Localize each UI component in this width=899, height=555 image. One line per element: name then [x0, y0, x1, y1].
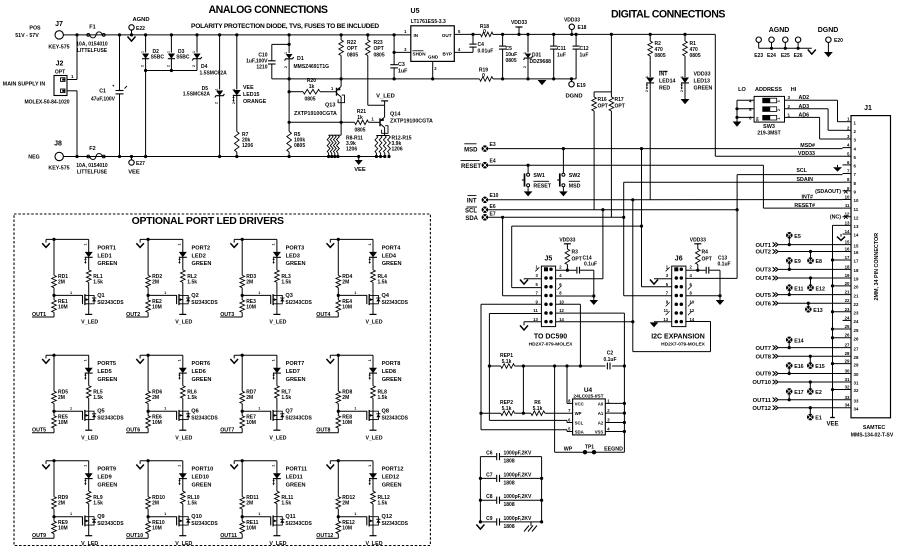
- svg-text:OUT11: OUT11: [753, 398, 772, 404]
- wire cell4 top: [330, 238, 373, 240]
- svg-text:1.5k: 1.5k: [187, 395, 197, 401]
- wire SCL to J1 pin7 and J6 pin4: [736, 208, 739, 211]
- svg-text:ZXTP19100CGTA: ZXTP19100CGTA: [294, 111, 337, 117]
- capacitor C4: [471, 33, 474, 36]
- svg-text:GREEN: GREEN: [382, 483, 402, 489]
- svg-text:J1: J1: [864, 105, 872, 112]
- wire DGND rail: [503, 78, 576, 80]
- svg-text:24: 24: [854, 319, 859, 324]
- resistor RE8: [337, 404, 339, 416]
- svg-text:10M: 10M: [246, 420, 256, 426]
- wire AD3 to J1 pin2: [785, 108, 829, 110]
- capacitor C2: [606, 363, 608, 370]
- svg-text:OPT: OPT: [615, 104, 625, 110]
- svg-text:ADDRESS: ADDRESS: [755, 87, 782, 93]
- svg-text:E5: E5: [794, 234, 801, 240]
- svg-text:51V - 57V: 51V - 57V: [15, 33, 39, 39]
- svg-text:SI2343CDS: SI2343CDS: [382, 416, 409, 422]
- svg-text:14: 14: [559, 317, 564, 322]
- svg-text:AGND: AGND: [132, 17, 149, 23]
- svg-text:SI2343CDS: SI2343CDS: [97, 300, 124, 306]
- svg-text:11: 11: [845, 203, 850, 208]
- svg-text:E12: E12: [816, 286, 825, 292]
- terminal E19 DGND: [570, 77, 573, 80]
- node J1 pin 2 stub: [843, 129, 852, 131]
- svg-text:1: 1: [70, 407, 72, 411]
- terminal E8: [807, 257, 814, 264]
- svg-text:OUT8: OUT8: [316, 428, 330, 434]
- svg-text:BYP: BYP: [443, 52, 452, 57]
- resistor RD12: [337, 461, 339, 497]
- svg-text:1k: 1k: [309, 84, 315, 90]
- svg-text:J7: J7: [55, 21, 63, 28]
- svg-text:V_LED: V_LED: [365, 541, 382, 547]
- svg-text:5.1k: 5.1k: [502, 406, 512, 412]
- svg-text:SW2: SW2: [569, 173, 581, 179]
- svg-text:Q9: Q9: [97, 514, 104, 520]
- svg-text:GREEN: GREEN: [97, 261, 117, 267]
- resistor RD3: [241, 239, 243, 275]
- svg-text:1uF: 1uF: [580, 53, 589, 59]
- svg-text:PORT1: PORT1: [97, 245, 116, 251]
- svg-text:1: 1: [354, 407, 356, 411]
- resistor RE9: [53, 509, 55, 521]
- svg-text:E25: E25: [781, 53, 790, 59]
- svg-text:Q5: Q5: [97, 409, 104, 415]
- svg-text:I2C EXPANSION: I2C EXPANSION: [651, 334, 705, 341]
- wire J5 pin4 riser SCL: [601, 208, 604, 211]
- wire OUT12 stub: [337, 534, 339, 539]
- resistor RD4: [337, 239, 339, 275]
- svg-text:22: 22: [845, 298, 850, 303]
- resistor R1: [683, 33, 686, 36]
- svg-text:TO DC590: TO DC590: [534, 334, 567, 341]
- terminal E22 / AGND: [130, 33, 133, 36]
- LED14 INT red: [646, 78, 654, 83]
- svg-text:14: 14: [854, 233, 859, 238]
- svg-text:E14: E14: [794, 338, 803, 344]
- resistors R12-R15: [376, 135, 389, 137]
- node J1 pin 26 stub: [833, 337, 852, 339]
- resistor R18: [481, 32, 494, 37]
- svg-text:PORT2: PORT2: [192, 245, 211, 251]
- svg-text:VDD33: VDD33: [511, 20, 527, 26]
- svg-text:32: 32: [845, 385, 850, 390]
- svg-text:A1: A1: [598, 411, 604, 416]
- svg-text:2MM, 34 PIN CONNECTOR: 2MM, 34 PIN CONNECTOR: [874, 233, 880, 301]
- wire U4 VCC riser: [567, 402, 573, 404]
- wire U5 BYP: [454, 51, 473, 53]
- fuse F1: [87, 34, 90, 37]
- svg-text:1808: 1808: [504, 480, 515, 486]
- svg-text:1: 1: [645, 76, 649, 78]
- svg-text:MMS-134-02-T-SV: MMS-134-02-T-SV: [851, 433, 894, 439]
- svg-text:1: 1: [272, 359, 276, 361]
- svg-text:KEY-575: KEY-575: [48, 45, 69, 51]
- svg-text:E23: E23: [754, 53, 763, 59]
- svg-text:5.1k: 5.1k: [502, 359, 512, 365]
- svg-text:C14: C14: [583, 255, 592, 261]
- svg-text:E26: E26: [794, 53, 803, 59]
- svg-text:VDD33: VDD33: [564, 18, 580, 24]
- svg-text:1: 1: [164, 407, 166, 411]
- node J1 pin 4 stub: [843, 147, 852, 149]
- svg-text:E6: E6: [490, 204, 496, 210]
- svg-text:33: 33: [845, 395, 850, 400]
- svg-text:18: 18: [845, 264, 850, 269]
- svg-text:25: 25: [845, 324, 850, 329]
- resistor RE1: [53, 288, 55, 300]
- svg-text:0805: 0805: [354, 128, 365, 134]
- svg-text:VEE: VEE: [354, 167, 366, 173]
- svg-text:Q12: Q12: [382, 514, 393, 520]
- node J6 pin1 nc: [666, 267, 670, 271]
- svg-text:D4: D4: [201, 64, 208, 70]
- svg-text:GREEN: GREEN: [382, 261, 402, 267]
- wire J5 pin3 gnd: [524, 278, 541, 280]
- svg-text:OUT4: OUT4: [756, 276, 772, 282]
- svg-text:47uF,100V: 47uF,100V: [91, 97, 116, 103]
- wire J5 pin11 to U4 SCL: [489, 313, 541, 315]
- svg-text:U4: U4: [584, 387, 593, 394]
- svg-text:1: 1: [354, 291, 356, 295]
- node J1 pin 14 stub: [843, 233, 852, 235]
- svg-text:2M: 2M: [58, 501, 65, 507]
- svg-text:22: 22: [854, 302, 859, 307]
- svg-text:12: 12: [559, 308, 564, 313]
- svg-text:1: 1: [70, 291, 72, 295]
- svg-text:E2: E2: [815, 390, 822, 396]
- svg-text:MMSZ4691T1G: MMSZ4691T1G: [294, 64, 330, 70]
- svg-text:1000pF,2KV: 1000pF,2KV: [504, 472, 532, 478]
- wire VCC line: [522, 364, 525, 367]
- svg-text:2: 2: [284, 66, 288, 68]
- resistor RL12: [371, 491, 376, 504]
- LED13 VDD33 green: [681, 78, 689, 83]
- resistor R16: [593, 92, 595, 97]
- svg-text:Q14: Q14: [390, 112, 401, 118]
- terminal E1: [807, 414, 814, 421]
- wire VEE bus along J1: [832, 225, 834, 417]
- transistor Q10: [182, 504, 184, 516]
- svg-text:2: 2: [215, 102, 219, 104]
- svg-text:LED14: LED14: [659, 79, 676, 85]
- svg-text:F2: F2: [89, 146, 95, 152]
- svg-text:LED6: LED6: [192, 369, 206, 375]
- svg-text:E17: E17: [794, 390, 803, 396]
- svg-text:GREEN: GREEN: [192, 483, 212, 489]
- svg-text:219-3MST: 219-3MST: [757, 131, 780, 137]
- net V_LED cell12: [370, 535, 377, 537]
- node J1 pin 5 stub: [843, 155, 852, 157]
- svg-text:OPT: OPT: [598, 104, 608, 110]
- node J6 pins 9-12 nc: [666, 302, 670, 306]
- svg-text:21: 21: [845, 290, 850, 295]
- resistor RD7: [241, 355, 243, 391]
- svg-text:2M: 2M: [152, 501, 159, 507]
- svg-text:2: 2: [141, 65, 145, 67]
- svg-text:C3: C3: [398, 62, 405, 68]
- connector J1: [851, 116, 891, 418]
- resistor RE3: [241, 288, 243, 300]
- svg-text:11: 11: [854, 207, 859, 212]
- svg-text:0805: 0805: [690, 53, 701, 59]
- svg-text:15: 15: [854, 243, 859, 248]
- svg-text:V_LED: V_LED: [365, 435, 382, 441]
- fuse F2: [87, 155, 90, 158]
- diode D3: [170, 33, 173, 36]
- svg-text:2M: 2M: [246, 501, 253, 507]
- svg-text:1: 1: [680, 76, 684, 78]
- svg-text:OUT3: OUT3: [220, 312, 234, 318]
- svg-text:OPT: OPT: [374, 46, 384, 52]
- wire INT riser / I2C loop: [631, 198, 634, 201]
- net V_LED cell9: [85, 535, 92, 537]
- svg-text:1: 1: [164, 291, 166, 295]
- svg-text:C1: C1: [99, 89, 106, 95]
- svg-text:1808: 1808: [504, 524, 515, 530]
- svg-text:1k: 1k: [357, 115, 363, 121]
- svg-text:OUT6: OUT6: [756, 301, 772, 307]
- node J1 pin 25 stub: [833, 328, 852, 330]
- svg-text:SCL: SCL: [796, 168, 807, 174]
- svg-text:OPT: OPT: [702, 257, 712, 263]
- wire AD2 to J1 pin1: [785, 99, 796, 101]
- svg-text:LED1: LED1: [97, 253, 111, 259]
- node J1 pin 13 stub: [833, 224, 852, 226]
- svg-text:C6: C6: [486, 451, 493, 457]
- wire J2 to rails: [67, 79, 77, 81]
- svg-text:20: 20: [854, 285, 859, 290]
- svg-text:LED2: LED2: [192, 253, 206, 259]
- svg-text:VCC: VCC: [575, 401, 584, 406]
- svg-text:V_LED: V_LED: [81, 435, 98, 441]
- svg-text:1000pF,2KV: 1000pF,2KV: [504, 494, 532, 500]
- svg-text:Q3: Q3: [285, 293, 292, 299]
- svg-text:R4: R4: [702, 250, 709, 256]
- resistor RD10: [147, 461, 149, 497]
- node J5 pin6 nc: [558, 286, 562, 290]
- terminal E17: [786, 388, 793, 395]
- svg-text:21: 21: [854, 293, 859, 298]
- terminal E9: [786, 257, 793, 264]
- svg-text:VEE: VEE: [128, 170, 140, 176]
- svg-text:LED5: LED5: [97, 369, 111, 375]
- svg-text:C4: C4: [478, 42, 485, 48]
- svg-text:E4: E4: [490, 159, 496, 165]
- node J1 pin 9 stub: [843, 190, 852, 192]
- svg-text:RESET: RESET: [461, 164, 481, 170]
- svg-text:1: 1: [272, 465, 276, 467]
- svg-text:0.01uF: 0.01uF: [478, 49, 494, 55]
- svg-text:10M: 10M: [342, 304, 352, 310]
- resistor RD1: [53, 239, 55, 275]
- svg-text:26: 26: [845, 333, 850, 338]
- svg-text:2M: 2M: [246, 395, 253, 401]
- svg-text:C9: C9: [486, 516, 493, 522]
- capacitor C8: [480, 499, 496, 501]
- svg-text:E22: E22: [136, 26, 145, 32]
- svg-text:OUT7: OUT7: [220, 428, 234, 434]
- svg-text:34: 34: [854, 406, 859, 411]
- capacitors C6-C9: [479, 457, 481, 522]
- svg-text:11: 11: [533, 308, 538, 313]
- net VEE tick: [358, 157, 360, 161]
- svg-text:RED: RED: [659, 86, 670, 92]
- svg-text:SI2343CDS: SI2343CDS: [285, 521, 312, 527]
- svg-text:10M: 10M: [342, 526, 352, 532]
- svg-text:1206: 1206: [392, 147, 403, 153]
- svg-text:10M: 10M: [58, 420, 68, 426]
- svg-text:27: 27: [845, 343, 850, 348]
- wire +V top rail: [64, 34, 411, 36]
- svg-text:E3: E3: [490, 142, 496, 148]
- transistor Q4: [372, 282, 374, 294]
- svg-text:GREEN: GREEN: [286, 483, 306, 489]
- terminal E27 / VEE: [130, 155, 133, 158]
- ground DGND triangle: [538, 80, 547, 85]
- capacitor C14: [566, 269, 569, 272]
- svg-text:1.5k: 1.5k: [281, 501, 291, 507]
- resistor R7: [235, 132, 240, 153]
- svg-text:OUT10: OUT10: [752, 380, 771, 386]
- resistor RD6: [147, 355, 149, 391]
- resistor RL4: [371, 270, 376, 283]
- wire J5 pin8: [556, 295, 594, 297]
- terminal E14: [786, 337, 793, 344]
- svg-text:2: 2: [777, 109, 781, 111]
- svg-text:VDD33: VDD33: [559, 237, 575, 243]
- svg-text:PORT11: PORT11: [286, 467, 307, 473]
- svg-text:2M: 2M: [342, 395, 349, 401]
- svg-text:VEE: VEE: [826, 422, 838, 428]
- svg-text:C8: C8: [486, 494, 493, 500]
- wire SDAIN riser / J6 pin7: [622, 216, 625, 219]
- svg-text:S5BC: S5BC: [176, 55, 190, 61]
- svg-text:C12: C12: [580, 46, 589, 52]
- capacitor C3: [393, 33, 396, 36]
- svg-text:OUT9: OUT9: [756, 372, 772, 378]
- svg-text:GREEN: GREEN: [286, 377, 306, 383]
- svg-text:25: 25: [854, 328, 859, 333]
- svg-text:MSD: MSD: [464, 147, 478, 153]
- resistor RE7: [241, 404, 243, 416]
- svg-text:E19: E19: [577, 83, 586, 89]
- svg-text:PORT7: PORT7: [286, 361, 305, 367]
- svg-text:0805: 0805: [655, 53, 666, 59]
- svg-text:Q13: Q13: [325, 103, 335, 109]
- svg-text:2M: 2M: [152, 279, 159, 285]
- svg-text:ON: ON: [756, 117, 760, 123]
- wire J5 pin12 riser EEGND: [556, 312, 625, 314]
- wire cell5 top: [46, 354, 89, 356]
- svg-text:GREEN: GREEN: [286, 261, 306, 267]
- svg-text:EEGND: EEGND: [604, 447, 623, 453]
- terminal E15: [807, 362, 814, 369]
- capacitor C13: [696, 269, 699, 272]
- svg-text:POLARITY PROTECTION DIODE, TVS: POLARITY PROTECTION DIODE, TVS, FUSES TO…: [191, 23, 379, 30]
- svg-text:LITTELFUSE: LITTELFUSE: [77, 48, 108, 54]
- svg-text:OPT: OPT: [572, 257, 582, 263]
- wire U5 OUT rail: [454, 33, 480, 35]
- svg-text:+: +: [112, 84, 115, 89]
- svg-text:OUT9: OUT9: [32, 533, 46, 539]
- svg-text:31: 31: [845, 377, 850, 382]
- terminal E18 VDD33: [570, 33, 573, 36]
- svg-text:2M: 2M: [342, 279, 349, 285]
- svg-text:1: 1: [178, 359, 182, 361]
- svg-text:GREEN: GREEN: [694, 86, 713, 92]
- svg-text:VDD33: VDD33: [694, 72, 711, 78]
- svg-text:PORT4: PORT4: [382, 245, 402, 251]
- svg-text:LED11: LED11: [286, 475, 303, 481]
- wire OUT8 stub: [337, 428, 339, 433]
- resistor RE12: [337, 509, 339, 521]
- svg-text:1: 1: [178, 243, 182, 245]
- svg-text:Q11: Q11: [285, 514, 295, 520]
- terminal E5: [786, 232, 793, 239]
- svg-text:10M: 10M: [152, 420, 162, 426]
- diode D5 TVS: [218, 33, 221, 36]
- svg-text:19: 19: [854, 277, 859, 282]
- svg-text:E15: E15: [815, 364, 824, 370]
- svg-text:1: 1: [272, 243, 276, 245]
- svg-text:1.5k: 1.5k: [281, 395, 291, 401]
- node J6 pin6 nc: [688, 286, 692, 290]
- svg-text:23: 23: [845, 307, 850, 312]
- svg-text:ORANGE: ORANGE: [243, 99, 267, 105]
- resistor RE6: [147, 404, 149, 416]
- svg-text:1uF: 1uF: [557, 53, 566, 59]
- resistor R20: [288, 90, 291, 93]
- svg-text:HI: HI: [791, 87, 797, 93]
- svg-text:13: 13: [845, 220, 850, 225]
- terminal E6 SCL line: [482, 206, 489, 213]
- svg-text:SI2343CDS: SI2343CDS: [97, 521, 124, 527]
- wire J6 pin8: [686, 295, 720, 297]
- svg-text:D1: D1: [297, 56, 304, 62]
- resistor RL9: [86, 491, 91, 504]
- svg-text:E11: E11: [794, 286, 803, 292]
- terminal E2: [807, 388, 814, 395]
- svg-text:12: 12: [854, 215, 859, 220]
- net VDD33 tick: [517, 33, 520, 36]
- svg-text:RESET: RESET: [533, 184, 551, 190]
- earth ground: [530, 522, 532, 526]
- svg-text:OUT1: OUT1: [756, 243, 772, 249]
- svg-text:1: 1: [141, 51, 145, 53]
- svg-text:OPT: OPT: [55, 70, 65, 76]
- svg-text:1000pF,2KV: 1000pF,2KV: [504, 451, 532, 457]
- svg-text:5.1k: 5.1k: [533, 406, 543, 412]
- svg-text:LED15: LED15: [243, 92, 260, 98]
- box optional port led drivers: [14, 214, 430, 546]
- svg-text:2: 2: [232, 102, 236, 104]
- svg-text:INT: INT: [467, 198, 477, 204]
- svg-text:OUT7: OUT7: [756, 346, 771, 352]
- svg-text:1: 1: [368, 359, 372, 361]
- svg-text:A0: A0: [598, 401, 604, 406]
- svg-text:1: 1: [84, 243, 88, 245]
- resistor R21: [289, 121, 354, 123]
- svg-text:20: 20: [845, 281, 850, 286]
- capacitor C12: [575, 33, 578, 36]
- resistor RL6: [181, 386, 186, 399]
- svg-text:VDD33: VDD33: [690, 237, 706, 243]
- svg-text:(SDAOUT): (SDAOUT): [815, 189, 841, 195]
- svg-text:A2: A2: [598, 421, 604, 426]
- svg-text:HD2X7-079-MOLEX: HD2X7-079-MOLEX: [529, 341, 574, 347]
